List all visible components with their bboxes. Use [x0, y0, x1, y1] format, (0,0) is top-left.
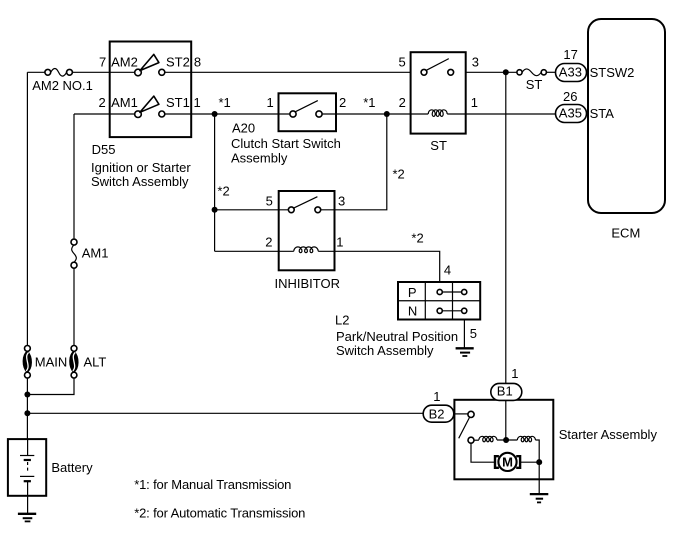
label Battery: [51, 460, 93, 475]
wire: B2 to starter solenoid contact: [454, 413, 468, 415]
svg-text:B1: B1: [497, 384, 513, 399]
svg-text:*2: *2: [411, 231, 423, 246]
battery junction node 1: [24, 392, 30, 398]
label pin 1 B2: [433, 389, 440, 404]
motor M starter: [495, 453, 520, 471]
contact starter solenoid: [459, 411, 474, 443]
svg-text:ALT: ALT: [84, 354, 107, 369]
svg-text:8: 8: [194, 55, 201, 70]
ground: starter: [530, 494, 549, 502]
svg-text:A20: A20: [232, 121, 255, 136]
coil starter pull-in: [517, 436, 535, 441]
coil starter hold-in: [479, 436, 497, 441]
label Ignition or Starter: [91, 160, 191, 175]
label AM2 NO.1: [32, 78, 93, 93]
contact L2 N row: [437, 308, 467, 313]
label ST1: [166, 95, 190, 110]
label pin 2 ST: [399, 95, 406, 110]
label AM2: [111, 55, 138, 70]
wire: below ALT fusible link to junction row: [27, 378, 74, 395]
svg-text:N: N: [408, 304, 417, 319]
node: starter coil junction: [503, 437, 509, 443]
svg-text:MAIN: MAIN: [35, 354, 68, 369]
svg-text:Switch Assembly: Switch Assembly: [91, 174, 189, 189]
battery cells: [20, 439, 34, 496]
fuse AM1: [71, 239, 77, 268]
svg-text:4: 4: [444, 263, 451, 278]
wire: D55 pin 2 horizontal: [74, 113, 135, 115]
connector B1: [491, 383, 522, 400]
label pin 1 B1: [511, 366, 518, 381]
label A20: [232, 121, 255, 136]
svg-text:*2: *2: [393, 167, 405, 182]
wire: battery to B2 horizontal y=413.3: [27, 412, 423, 414]
contact AM2/ST2: [135, 54, 165, 75]
fuse ST: [517, 69, 547, 76]
label pin 5 ST: [399, 55, 406, 70]
label pin 8: [194, 55, 201, 70]
wire: motor loop left: [471, 443, 494, 462]
wire: D55 ST1 pin 1 to A20 pin 1: [165, 113, 290, 115]
contact ST relay: [421, 59, 454, 76]
svg-text:5: 5: [399, 55, 406, 70]
svg-text:1: 1: [194, 95, 201, 110]
op: A20 clutch start switch assembly box: [279, 93, 337, 131]
wire: between AM1 fuse and ALT fusible link: [73, 268, 75, 345]
svg-text:ST1: ST1: [166, 95, 190, 110]
fusible link MAIN: [23, 346, 32, 379]
fusible link ALT: [70, 346, 79, 379]
svg-text:26: 26: [563, 89, 577, 104]
svg-text:AM1: AM1: [111, 95, 138, 110]
wire: horizontal top rail to AM2 NO.1 fuse: [27, 71, 45, 73]
svg-text:Clutch Start Switch: Clutch Start Switch: [231, 136, 341, 151]
label pin 7: [99, 55, 106, 70]
connector A35: [556, 105, 587, 123]
label STSW2: [590, 65, 635, 80]
svg-text:1: 1: [471, 95, 478, 110]
label AM1 fuse: [82, 246, 109, 261]
wire: ST fuse to ECM A33: [546, 71, 555, 73]
label ST2: [166, 55, 190, 70]
label pin 5 inhibitor: [266, 194, 273, 209]
label MAIN: [35, 354, 68, 369]
wire: *2 branch vertical x=386.8 from row2 down: [321, 114, 387, 210]
svg-text:AM2 NO.1: AM2 NO.1: [32, 78, 93, 93]
label pin 3 inhibitor: [338, 194, 345, 209]
label pin 1 inhibitor: [336, 234, 343, 249]
label N: [408, 304, 417, 319]
svg-text:Ignition or Starter: Ignition or Starter: [91, 160, 191, 175]
svg-text:D55: D55: [92, 142, 116, 157]
svg-text:STA: STA: [590, 106, 615, 121]
label Switch Assembly (D55): [91, 174, 189, 189]
label pin 1: [194, 95, 201, 110]
svg-text:Park/Neutral Position: Park/Neutral Position: [336, 329, 458, 344]
wire: inhibitor pin 1 to L2 pin 4: [318, 251, 440, 282]
svg-text:L2: L2: [335, 313, 349, 328]
wire: left vertical below MAIN fuse to battery: [26, 378, 28, 439]
node: ST relay output junction: [503, 69, 509, 75]
label Clutch Start Switch: [231, 136, 341, 151]
svg-text:2: 2: [265, 234, 272, 249]
svg-text:*1: for Manual Transmission: *1: for Manual Transmission: [134, 477, 291, 492]
battery junction node 2: [24, 410, 30, 416]
svg-text:17: 17: [563, 47, 577, 62]
switch D55 ignition or starter switch assembly box: [110, 42, 192, 138]
svg-text:1: 1: [336, 234, 343, 249]
label 17: [563, 47, 577, 62]
wire: AM1 branch vertical x=74 from D55 pin 2 down to AM1 fuse: [73, 114, 75, 238]
contact inhibitor: [288, 197, 320, 213]
label STA: [590, 106, 615, 121]
label pin 4 L2: [444, 263, 451, 278]
wire: battery positive rail top, left vertical x=27.4 from y=72 to MAIN fuse: [26, 72, 28, 345]
label pin 2 A20: [339, 95, 346, 110]
wire: D55 ST2 contact to ST relay pin 5: [165, 71, 411, 73]
svg-text:*2: for Automatic Transmission: *2: for Automatic Transmission: [134, 505, 305, 520]
label *2 left: [217, 183, 229, 198]
label *1 right: [363, 95, 375, 110]
svg-text:B2: B2: [429, 407, 445, 422]
label Assembly (A20): [231, 150, 288, 165]
label *2 branch: [393, 167, 405, 182]
svg-text:STSW2: STSW2: [590, 65, 635, 80]
label *2 L2: [411, 231, 423, 246]
node: inhibitor pin5 branch junction: [212, 207, 218, 213]
fuse AM2 NO.1: [45, 68, 73, 76]
relay ST box: [411, 52, 466, 133]
label ALT: [84, 354, 107, 369]
coil ST relay: [428, 110, 447, 117]
wire: battery negative to ground: [27, 496, 29, 514]
svg-text:2: 2: [99, 95, 106, 110]
node: A20 output junction: [384, 111, 390, 117]
coil inhibitor: [294, 247, 318, 253]
ground: L2 pin 5: [456, 348, 474, 356]
relay inhibitor box: [279, 191, 335, 270]
contact AM1/ST1: [135, 96, 165, 117]
label pin 2 inhibitor: [265, 234, 272, 249]
wire: branch to inhibitor pin 5: [215, 209, 289, 211]
svg-text:1: 1: [511, 366, 518, 381]
label pin 2: [99, 95, 106, 110]
label Starter Assembly: [559, 427, 658, 442]
wire: vertical x=505.8 from junction at y=72.3 down to starter B1: [505, 72, 507, 440]
label Switch Assembly (L2): [336, 343, 434, 358]
label ST fuse: [526, 77, 543, 92]
wire: *1/*2 branch vertical x=214.6 down to inhibitor pin 2 row: [214, 114, 216, 251]
wire: fuse to D55 pin 7: [72, 71, 134, 73]
contact L2 P row: [437, 289, 467, 294]
label AM1: [111, 95, 138, 110]
label note *2 automatic transmission: [134, 505, 305, 520]
ground: battery: [18, 514, 36, 522]
connector A33: [556, 64, 587, 82]
svg-text:1: 1: [267, 95, 274, 110]
svg-text:1: 1: [433, 389, 440, 404]
svg-text:*1: *1: [363, 95, 375, 110]
svg-text:*2: *2: [217, 183, 229, 198]
svg-text:P: P: [408, 285, 417, 300]
svg-text:AM2: AM2: [111, 55, 138, 70]
wire: motor to ground branch: [521, 462, 539, 494]
svg-text:Switch Assembly: Switch Assembly: [336, 343, 434, 358]
starter assembly box: [454, 400, 553, 480]
label D55: [92, 142, 116, 157]
svg-text:5: 5: [266, 194, 273, 209]
svg-text:*1: *1: [219, 95, 231, 110]
wire: between coils: [497, 439, 518, 441]
label ECM: [611, 226, 640, 241]
svg-text:AM1: AM1: [82, 246, 109, 261]
svg-text:Starter Assembly: Starter Assembly: [559, 427, 658, 442]
wire: inhibitor pin 2 stub: [215, 250, 294, 252]
label pin 1 A20: [267, 95, 274, 110]
battery box: [8, 439, 46, 496]
label *1 left: [219, 95, 231, 110]
svg-text:ST: ST: [430, 138, 447, 153]
label note *1 manual transmission: [134, 477, 291, 492]
contact A20: [290, 101, 322, 118]
label 26: [563, 89, 577, 104]
label L2: [335, 313, 349, 328]
svg-text:ST: ST: [526, 77, 543, 92]
label pin 3 ST: [472, 55, 479, 70]
wire: ST relay pin 1 to ECM A35: [447, 113, 555, 115]
svg-text:INHIBITOR: INHIBITOR: [275, 276, 341, 291]
svg-text:M: M: [502, 455, 513, 470]
svg-text:Assembly: Assembly: [231, 150, 288, 165]
switch L2 park/neutral position switch assembly box: [398, 282, 480, 320]
svg-text:ECM: ECM: [611, 226, 640, 241]
wire: starter coil row: [474, 439, 479, 441]
label P: [408, 285, 417, 300]
label pin 5 L2: [470, 326, 477, 341]
label ST relay: [430, 138, 447, 153]
svg-text:3: 3: [338, 194, 345, 209]
svg-text:Battery: Battery: [51, 460, 93, 475]
connector B2: [423, 405, 454, 422]
node: ST1 branch junction: [212, 111, 218, 117]
label pin 1 ST: [471, 95, 478, 110]
label Park/Neutral Position: [336, 329, 458, 344]
svg-text:A35: A35: [559, 106, 582, 121]
svg-text:2: 2: [339, 95, 346, 110]
label INHIBITOR: [275, 276, 341, 291]
svg-text:2: 2: [399, 95, 406, 110]
svg-text:3: 3: [472, 55, 479, 70]
node: motor ground junction: [536, 459, 542, 465]
svg-text:5: 5: [470, 326, 477, 341]
svg-text:A33: A33: [559, 65, 582, 80]
wire: ST relay pin 3 to ST fuse and junction: [466, 71, 517, 73]
wire: A20 pin 2 to ST relay pin 2: [322, 113, 428, 115]
wire: L2 pin 5 to ground: [463, 320, 465, 349]
svg-text:ST2: ST2: [166, 55, 190, 70]
ECM box: [588, 19, 665, 213]
wire: coil to motor branch: [535, 440, 539, 462]
svg-text:7: 7: [99, 55, 106, 70]
